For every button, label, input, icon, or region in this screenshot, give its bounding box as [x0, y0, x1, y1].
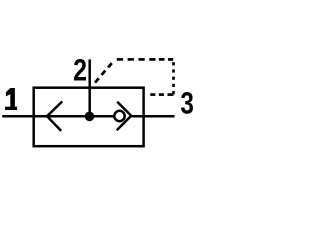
pilot line diagonal dashes: [95, 63, 112, 83]
label port 3: [181, 92, 193, 114]
wire port 2 lead (vertical line): [88, 59, 91, 116]
label port 1: [5, 88, 17, 110]
pneumatic check-valve schematic, ports 1/2/3: [0, 0, 200, 200]
valve body rectangle: [34, 88, 144, 147]
pilot line right vertical dashes: [172, 62, 175, 94]
node junction dot: [85, 112, 95, 122]
wire port 1 lead (left horizontal line): [2, 115, 115, 118]
label port 2: [74, 59, 86, 81]
flow arrow (left chevron): [47, 101, 62, 130]
check valve ball: [114, 111, 124, 121]
wire port 3 lead (right horizontal line): [131, 115, 175, 118]
check valve seat (right chevron): [117, 102, 132, 131]
pilot line top horizontal dashes: [117, 58, 173, 61]
pilot line bottom horizontal dashes: [150, 93, 173, 96]
